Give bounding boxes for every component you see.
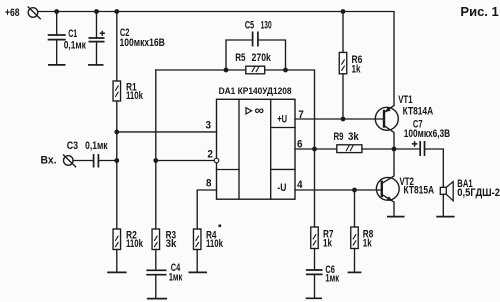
svg-text:110k: 110k xyxy=(206,238,224,250)
svg-text:КТ815А: КТ815А xyxy=(404,185,435,197)
svg-text:3: 3 xyxy=(206,120,212,132)
svg-text:R5: R5 xyxy=(235,52,245,64)
svg-text:Вх.: Вх. xyxy=(41,155,57,167)
svg-text:1k: 1k xyxy=(352,64,362,76)
svg-text:3k: 3k xyxy=(348,131,360,143)
svg-text:1k: 1k xyxy=(363,238,373,250)
svg-text:100мкх6,3В: 100мкх6,3В xyxy=(404,128,450,140)
svg-text:∞: ∞ xyxy=(255,103,265,118)
svg-text:0,1мк: 0,1мк xyxy=(64,40,87,52)
svg-text:6: 6 xyxy=(297,139,303,151)
svg-text:1мк: 1мк xyxy=(325,273,339,285)
svg-text:8: 8 xyxy=(206,178,212,190)
svg-text:DA1 КР140УД1208: DA1 КР140УД1208 xyxy=(219,86,292,97)
svg-text:1мк: 1мк xyxy=(169,272,183,284)
svg-text:1k: 1k xyxy=(323,238,333,250)
svg-text:130: 130 xyxy=(261,20,272,32)
svg-text:R9: R9 xyxy=(334,131,344,143)
svg-text:C3: C3 xyxy=(67,140,78,152)
svg-text:КТ814А: КТ814А xyxy=(403,106,434,118)
svg-text:+U: +U xyxy=(277,114,287,126)
svg-text:4: 4 xyxy=(297,179,303,191)
svg-text:+68: +68 xyxy=(5,7,20,19)
svg-text:3k: 3k xyxy=(166,238,178,250)
svg-text:110k: 110k xyxy=(126,238,144,250)
svg-text:270k: 270k xyxy=(252,52,272,64)
svg-text:7: 7 xyxy=(298,109,304,121)
svg-text:VT1: VT1 xyxy=(398,94,412,106)
svg-text:Рис. 1: Рис. 1 xyxy=(460,4,498,19)
svg-text:-U: -U xyxy=(277,182,286,194)
svg-text:2: 2 xyxy=(207,148,213,160)
svg-text:0,1мк: 0,1мк xyxy=(85,140,108,152)
svg-text:0,5ГДШ-2: 0,5ГДШ-2 xyxy=(457,187,500,199)
svg-text:C5: C5 xyxy=(245,20,255,32)
svg-text:100мкх16В: 100мкх16В xyxy=(120,37,165,49)
svg-text:110k: 110k xyxy=(126,90,144,102)
svg-text:C1: C1 xyxy=(68,28,77,40)
